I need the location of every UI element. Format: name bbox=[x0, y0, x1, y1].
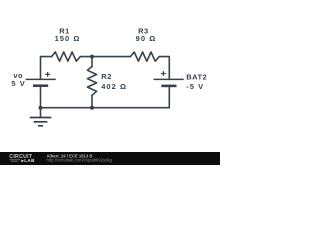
resistor R3 bbox=[130, 52, 159, 61]
resistor R1 bbox=[52, 52, 81, 61]
wire node A to R3 bbox=[92, 56, 130, 58]
svg-text:R2: R2 bbox=[101, 72, 112, 81]
wire R1 to node A bbox=[80, 56, 92, 58]
svg-text:-5 V: -5 V bbox=[186, 82, 204, 91]
svg-text:http://circuitlab.com/c/qzafrk: http://circuitlab.com/c/qzafrk92s2kg bbox=[47, 158, 113, 163]
node A (junction dot top) bbox=[90, 55, 94, 59]
svg-text:▸LAB: ▸LAB bbox=[21, 158, 36, 163]
wire source V1 bottom lead to ground bbox=[40, 86, 42, 118]
svg-text:150 Ω: 150 Ω bbox=[55, 34, 81, 43]
resistor R2 bottom lead bbox=[91, 95, 93, 107]
wire top-left corner to R1 bbox=[41, 57, 52, 80]
svg-text:5 V: 5 V bbox=[11, 79, 25, 88]
svg-text:90 Ω: 90 Ω bbox=[136, 34, 157, 43]
resistor R2 bbox=[87, 67, 96, 96]
svg-text:402 Ω: 402 Ω bbox=[101, 82, 127, 91]
svg-text:BAT2: BAT2 bbox=[186, 72, 207, 81]
node C (junction dot bottom left) bbox=[39, 106, 43, 110]
wire R3 to top-right corner and down to BAT2 bbox=[159, 57, 169, 80]
voltage source vo (left battery) bbox=[26, 72, 56, 86]
footer CircuitLab logo bbox=[9, 154, 35, 163]
wire bottom bbox=[41, 107, 170, 109]
node B (junction dot bottom middle) bbox=[90, 106, 94, 110]
wire BAT2 bottom lead bbox=[168, 86, 170, 108]
ground bbox=[30, 118, 52, 126]
battery BAT2 (right) bbox=[154, 71, 184, 86]
footer bar bbox=[0, 152, 220, 165]
resistor R2 top lead bbox=[91, 57, 93, 67]
